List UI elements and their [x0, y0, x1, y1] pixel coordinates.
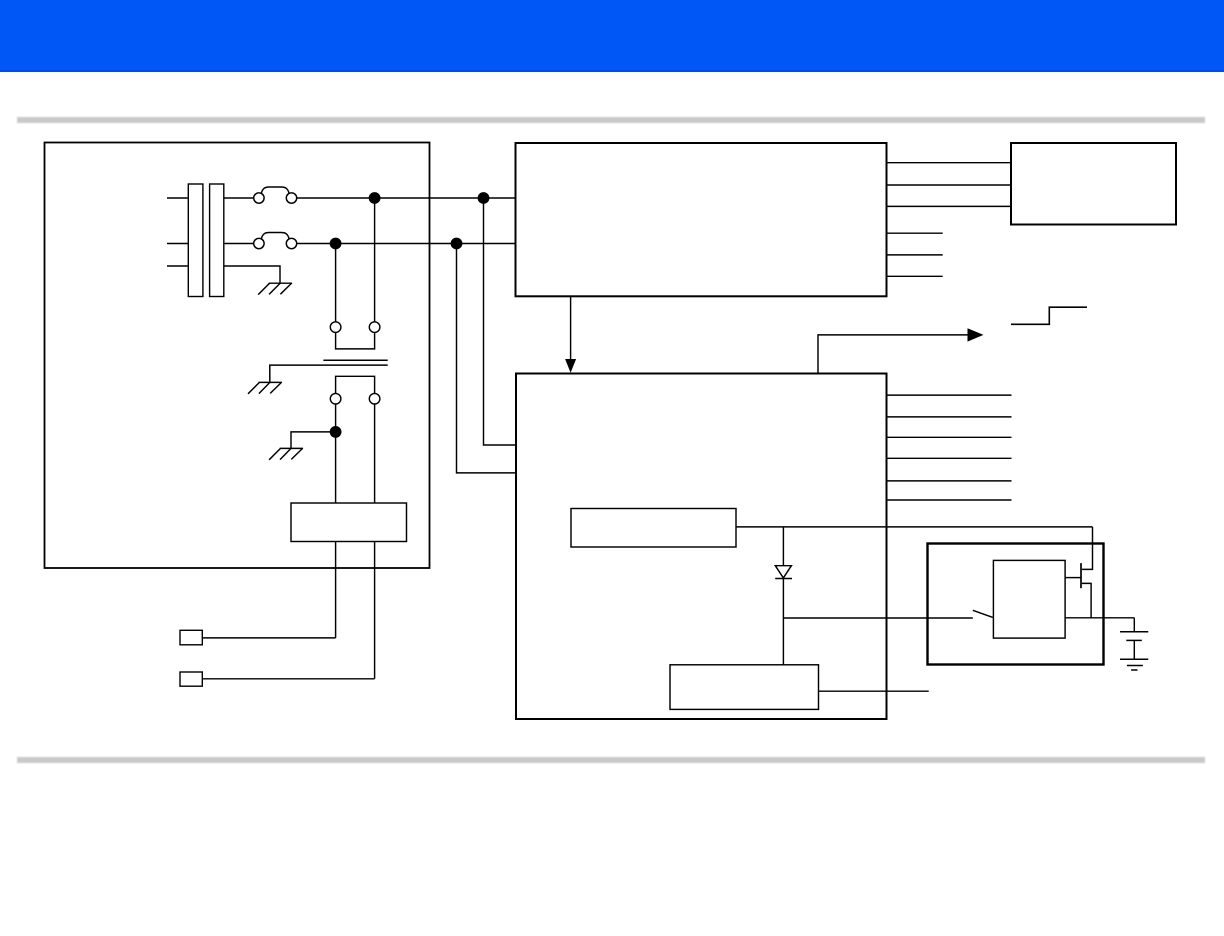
capacitor C1 top plate [323, 359, 387, 361]
wire: DAA to controller arrow [570, 297, 572, 361]
diode D1 triangle [775, 566, 791, 578]
fuse F1 (tip line arrester) [254, 187, 297, 203]
transistor Q1 gate lead [1065, 577, 1081, 579]
wire: ring detect up [818, 335, 968, 374]
ground: relay leg [269, 448, 303, 460]
node: tip/sense junction [478, 192, 490, 204]
node: ring/sense junction [451, 238, 463, 250]
node: ring/hook junction [330, 238, 342, 250]
ground: signal ground bar 2 [1127, 665, 1143, 667]
wire: terminal 1 horizontal [203, 637, 336, 639]
wire: bus line 2 [887, 184, 1012, 186]
block: DAA / line transformer box (top middle) [516, 143, 887, 296]
wire: ring sense drop to modem [457, 244, 517, 473]
wire: pulse contact bridge [336, 376, 375, 393]
relay coil box K1 [291, 503, 407, 542]
block: relay module box (thick border) [928, 544, 1104, 665]
bottom divider bar [17, 757, 1205, 763]
block: line interface box (left) [45, 143, 430, 569]
wire: io stub 1 [887, 394, 1012, 396]
wire: hook switch tip drop [374, 198, 376, 322]
wire: contact pair common [336, 332, 375, 349]
wire: junction to ground [291, 432, 336, 449]
capacitor C2 bottom plate [1126, 639, 1142, 641]
wire: bus line 3 [887, 205, 1012, 207]
wire: shield lead stub [167, 265, 188, 267]
switch S1 blade [973, 610, 993, 617]
wire: tip line to DAA [297, 197, 516, 199]
wire: stub out 1 [887, 232, 943, 234]
connector J1 jack half [210, 184, 224, 297]
header bar bottom edge [0, 70, 1224, 72]
wire: cathode node down to sub-box B [782, 618, 784, 665]
step waveform symbol [1011, 307, 1087, 324]
block: codec box (top right) [1011, 143, 1176, 225]
wire: tip to fuse F1 [224, 197, 254, 199]
wire: K2a to coil box [335, 404, 337, 503]
wire: bus line 1 [887, 162, 1012, 164]
relay contact K1b [369, 322, 380, 333]
arrowhead: ring detect right [968, 328, 984, 341]
fuse F2 (ring line arrester) [254, 233, 297, 249]
arrowhead: down into controller [565, 359, 576, 373]
node: ground tap junction [330, 426, 342, 438]
wire: io stub 4 [887, 457, 1012, 459]
wire: io stub 2 [887, 416, 1012, 418]
wire: source rail out [1065, 617, 1134, 619]
block: modem controller box (center) [516, 374, 887, 720]
terminal T2 [180, 672, 202, 686]
wire: diode cathode stem [782, 579, 784, 619]
wire: driver output to gate [736, 526, 1093, 528]
relay contact K2a [330, 393, 341, 404]
wire: io stub 3 [887, 436, 1012, 438]
transistor Q1 gate bar [1080, 563, 1082, 588]
wire: shield to ground [224, 266, 280, 283]
wire: ring lead stub [167, 243, 188, 245]
wire: coil to terminal 2 [374, 542, 376, 679]
connector J1 plug half [188, 184, 203, 297]
terminal T1 [180, 630, 202, 645]
relay contact K2b [369, 393, 380, 404]
wire: terminal 2 horizontal [203, 678, 375, 680]
ground: signal ground bar 3 [1131, 669, 1137, 671]
block: detector sub-box B [670, 665, 819, 710]
node: tip/hook junction [369, 192, 381, 204]
wire: capacitor C2 stem [1133, 618, 1135, 632]
wire: io stub 5 [887, 480, 1012, 482]
ground: signal ground bar 1 [1120, 658, 1148, 660]
wire: ring line to DAA [297, 243, 516, 245]
ground: connector shield [258, 283, 292, 295]
wire: diode anode stem [782, 527, 784, 566]
wire: C2 to ground [1133, 640, 1135, 659]
wire: io stub 6 [887, 499, 1012, 501]
capacitor C2 top plate [1120, 631, 1148, 633]
diode D1 cathode bar [775, 578, 792, 580]
wire: sub-box B output [819, 690, 929, 692]
wire: stub out 2 [887, 254, 943, 256]
wire: stub out 3 [887, 275, 943, 277]
ground: capacitor C1 [248, 382, 282, 394]
wire: tip sense drop to modem [484, 198, 517, 445]
top divider bar [17, 117, 1205, 123]
relay contact K1a [330, 322, 341, 333]
wire: K2b to coil box [374, 404, 376, 503]
wire: tip lead stub [167, 197, 188, 199]
capacitor C1 bottom plate and ground wire [270, 365, 388, 382]
wire: cathode node to switch [783, 617, 972, 619]
header bar [0, 0, 1224, 71]
transistor Q1 drain lead [1082, 527, 1093, 570]
transistor Q1 source lead [1082, 583, 1091, 617]
wire: hook switch ring drop [335, 244, 337, 322]
wire: ring to fuse F2 [224, 243, 254, 245]
block: driver sub-box A [571, 509, 736, 548]
wire: coil to terminal 1 [335, 542, 337, 638]
block: opto sub-box C [993, 560, 1065, 638]
